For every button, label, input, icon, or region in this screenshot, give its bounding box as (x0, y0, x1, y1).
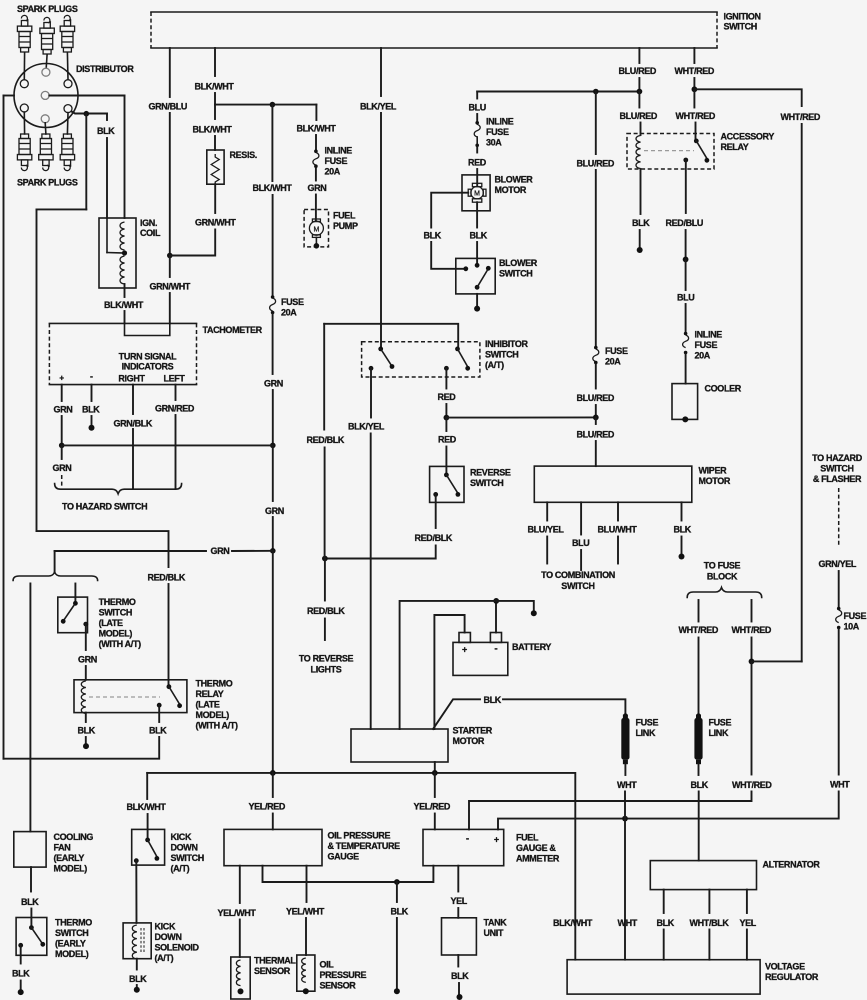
node RED/BLK junction (322, 556, 328, 562)
svg-text:SENSOR: SENSOR (254, 966, 291, 976)
wire thermo relay coil BLK out (85, 713, 87, 722)
wire YEL/WHT to oil sensor (306, 866, 308, 902)
wire relay coil BLK out (640, 169, 642, 214)
wire BLK from tach (91, 385, 93, 401)
wire WHT/RED to junction (693, 78, 695, 89)
svg-text:& TEMPERATURE: & TEMPERATURE (328, 841, 401, 851)
fuel pump box (304, 210, 328, 247)
svg-text:(EARLY: (EARLY (54, 853, 85, 863)
wire BLU/RED to relay (638, 92, 640, 108)
svg-text:FUSE: FUSE (844, 611, 867, 621)
svg-text:-: - (466, 834, 469, 845)
wire rail continues (595, 170, 597, 346)
wire WHT/RED branch right (694, 89, 801, 106)
wire BLK drop (396, 882, 398, 902)
svg-text:BLK/YEL: BLK/YEL (348, 422, 385, 432)
fuse 10A (837, 607, 841, 611)
svg-text:LEFT: LEFT (163, 374, 185, 384)
inhibitor feed horizontal (324, 324, 458, 349)
thermo relay dashed link (89, 696, 160, 698)
svg-text:(LATE: (LATE (196, 700, 220, 710)
svg-text:OIL: OIL (320, 959, 335, 969)
svg-text:GRN: GRN (308, 183, 327, 193)
wire rotor to coil (horizontal) (49, 95, 124, 97)
spark plug P3 (60, 15, 74, 52)
wire BLU below splice (685, 259, 687, 290)
wire rail to junction (595, 405, 597, 417)
wire BLK/YEL to inhibitor switch (380, 113, 382, 349)
wire ground branch horizontal (37, 208, 87, 210)
svg-text:INDICATORS: INDICATORS (122, 362, 174, 372)
wire blower switch ground stub (476, 294, 478, 307)
node solenoid terminal (134, 987, 140, 993)
svg-text:BLK/WHT: BLK/WHT (127, 802, 167, 812)
cooler box (672, 384, 698, 420)
tachometer box (49, 322, 196, 324)
wire BLK terminal (20, 981, 22, 991)
oil pressure sensor coil (302, 958, 306, 982)
svg-text:BLK/YEL: BLK/YEL (360, 102, 397, 112)
wire RED to reverse switch (445, 418, 447, 431)
svg-text:GRN: GRN (211, 546, 230, 556)
svg-text:REVERSE: REVERSE (470, 468, 511, 478)
wire GRN below bus (61, 445, 63, 459)
node BLK terminal dot (83, 743, 89, 749)
resistor RESIS. box (207, 150, 224, 184)
wire GRN rail to bottom bus (272, 551, 274, 773)
svg-text:SWITCH: SWITCH (485, 350, 518, 360)
wire alternator BLK out (663, 890, 665, 913)
node coil tap (122, 250, 127, 255)
distributor body (14, 64, 78, 128)
svg-text:INHIBITOR: INHIBITOR (485, 339, 529, 349)
wire BLK return to left rail (4, 737, 160, 759)
distributor rotor center (41, 91, 49, 99)
wire BLK/YEL from ignition switch (380, 48, 382, 96)
svg-text:YEL: YEL (451, 896, 468, 906)
thermo switch (early model) box (16, 918, 47, 956)
wire WHT/RED ammeter feed (751, 600, 753, 622)
wire to inline fuse (315, 135, 317, 150)
svg-text:-: - (494, 643, 497, 654)
kick down switch contacts (145, 838, 150, 843)
wire YEL tank unit feed (457, 866, 459, 892)
svg-text:FUSE: FUSE (281, 297, 304, 307)
wire BLU stub (580, 550, 582, 570)
svg-text:BLU/WHT: BLU/WHT (598, 524, 638, 534)
wire GRN to thermo relay coil (85, 666, 87, 680)
wire GRN rail to thermo branch (272, 517, 274, 551)
fusible link 2 (BLK) (696, 713, 701, 718)
svg-text:(A/T): (A/T) (155, 953, 174, 963)
wire BLK/WHT into switch (147, 814, 149, 840)
svg-text:BLU: BLU (677, 293, 694, 303)
node bus to GRN rail (270, 770, 276, 776)
wire brace drop to thermo switch (74, 584, 76, 604)
svg-text:KICK: KICK (171, 832, 192, 842)
node gauge ground terminal (394, 988, 400, 994)
svg-text:BLK: BLK (484, 695, 502, 705)
svg-text:RED/BLU: RED/BLU (666, 218, 704, 228)
wire BLK to VR (663, 930, 665, 960)
resistor zigzag (211, 154, 219, 185)
svg-text:INLINE: INLINE (486, 117, 514, 127)
svg-text:RELAY: RELAY (196, 689, 224, 699)
inhibitor right contacts (455, 347, 460, 352)
wire GRN/RED to hazard brace (175, 415, 177, 488)
wire BLU to cooler (685, 354, 687, 384)
wire below fuse (315, 168, 317, 181)
wire BLK/YEL to starter (370, 434, 372, 730)
svg-text:(LATE: (LATE (99, 618, 123, 628)
svg-text:TO REVERSE: TO REVERSE (299, 653, 354, 663)
wire BLK stub terminal (639, 230, 641, 248)
wire reverse out to junction (325, 546, 436, 559)
svg-text:(WITH A/T): (WITH A/T) (196, 721, 239, 731)
thermo switch late contacts (73, 601, 78, 606)
wire GRN/WHT to tachometer (169, 256, 171, 278)
svg-text:BLU/RED: BLU/RED (577, 429, 615, 439)
wire fused rail continues (272, 195, 274, 295)
reverse switch box (430, 466, 464, 502)
wire BLU to inline fuse (476, 114, 478, 122)
wire RED junction to BLU/RED rail (446, 416, 595, 418)
wire RED/BLU relay out (685, 160, 687, 213)
distributor cap terminal lower-right (64, 105, 72, 113)
svg-text:RED/BLK: RED/BLK (307, 606, 345, 616)
wire RED to blower motor (476, 169, 478, 186)
wire BLU/RED into relay coil (640, 123, 642, 136)
svg-text:TANK: TANK (484, 917, 508, 927)
hazard connector brace (55, 484, 182, 494)
svg-text:THERMO: THERMO (196, 679, 233, 689)
svg-text:SWITCH: SWITCH (55, 928, 88, 938)
distributor cap terminal bottom-center (41, 115, 49, 123)
svg-text:WHT/RED: WHT/RED (732, 625, 772, 635)
fusible link 1 (WHT) (623, 713, 628, 718)
wire BLU/RED to junction (638, 78, 640, 92)
svg-text:FUSE: FUSE (605, 346, 628, 356)
distributor cap terminal top-center (42, 68, 50, 76)
wire rail below junction (595, 417, 597, 424)
kick down solenoid box (123, 923, 151, 959)
node BLK drop junction (394, 879, 400, 885)
wire YEL to VR (746, 930, 748, 960)
wire GRN below fuse (272, 314, 274, 374)
wire RED to junction (445, 404, 447, 418)
wire starter BLK jog diagonal (433, 699, 480, 729)
svg-text:(EARLY: (EARLY (55, 938, 86, 948)
svg-text:MOTOR: MOTOR (495, 185, 527, 195)
svg-text:BLK: BLK (82, 405, 100, 415)
wire GRN/WHT continues to tachometer (169, 293, 171, 323)
svg-text:BLK/WHT: BLK/WHT (297, 124, 337, 134)
wire WHT to ammeter line (498, 792, 839, 830)
wire GRN/BLU continues (169, 113, 171, 256)
wire WHT below fuse 10A (838, 629, 840, 775)
svg-text:VOLTAGE: VOLTAGE (765, 961, 805, 971)
wire GRN dashed to hazard brace (61, 475, 63, 488)
wire fused GRN rail from branch (271, 105, 273, 181)
wire BLK/YEL inhibitor out (370, 368, 372, 417)
wire reverse switch out (435, 494, 437, 528)
svg-text:DOWN: DOWN (171, 843, 198, 853)
wire WHT/RED to junction (751, 638, 753, 662)
wire rail below fuse (595, 364, 597, 389)
svg-text:MOTOR: MOTOR (699, 476, 731, 486)
wire BLK to coil primary (106, 114, 108, 121)
svg-text:ALTERNATOR: ALTERNATOR (763, 859, 821, 869)
wire YEL/WHT continues (239, 920, 241, 958)
svg-text:BLU/RED: BLU/RED (619, 66, 657, 76)
node GRN bus right end (270, 443, 276, 449)
fuel pump motor (309, 221, 323, 235)
svg-text:PUMP: PUMP (333, 221, 358, 231)
wire BLK to terminal (396, 918, 398, 989)
svg-text:GRN: GRN (53, 463, 72, 473)
wire RED into reverse switch (445, 447, 447, 475)
wire BLU wiper out (580, 502, 582, 534)
node tank terminal (457, 994, 463, 1000)
svg-text:BLK/WHT: BLK/WHT (553, 918, 593, 928)
svg-text:WHT/RED: WHT/RED (675, 66, 715, 76)
svg-text:BLOWER: BLOWER (499, 258, 538, 268)
svg-text:BLOWER: BLOWER (495, 175, 534, 185)
node BLU/RED drop junction (593, 89, 599, 95)
svg-text:& FLASHER: & FLASHER (813, 474, 862, 484)
wire WHT/RED right rail down (801, 124, 803, 661)
svg-text:BLOCK: BLOCK (707, 572, 738, 582)
wire kick down switch out (135, 861, 137, 923)
wire RED/BLK below junction (324, 559, 326, 601)
svg-text:SWITCH: SWITCH (724, 22, 757, 32)
svg-text:GRN/BLU: GRN/BLU (149, 102, 188, 112)
svg-text:IGN.: IGN. (140, 218, 157, 228)
svg-text:YEL/RED: YEL/RED (414, 802, 451, 812)
reverse switch contacts (444, 473, 449, 478)
svg-text:BLK/WHT: BLK/WHT (193, 125, 233, 135)
thermal sensor box (231, 957, 250, 999)
wire BLK/WHT from ignition switch (214, 48, 216, 76)
wire RED inhibitor out (445, 368, 447, 388)
node BLU/RED-RED junction (593, 415, 599, 421)
wire blower motor left BLK (431, 193, 468, 228)
svg-text:RESIS.: RESIS. (230, 150, 257, 160)
svg-text:+: + (59, 374, 64, 383)
node wiper BLK terminal (679, 554, 685, 560)
coil primary lead inside (106, 218, 108, 253)
svg-text:BLK: BLK (632, 218, 650, 228)
wire battery + to starter (434, 615, 464, 729)
svg-text:20A: 20A (281, 308, 297, 318)
svg-text:GRN/YEL: GRN/YEL (819, 559, 857, 569)
accessory relay dashed link (644, 150, 694, 152)
svg-text:GAUGE: GAUGE (328, 852, 360, 862)
svg-text:COIL: COIL (140, 228, 161, 238)
svg-text:TURN SIGNAL: TURN SIGNAL (119, 352, 177, 362)
node WHT/RED junction (692, 86, 698, 92)
wire plug P3 to distributor (66, 53, 69, 80)
svg-text:LIGHTS: LIGHTS (311, 664, 342, 674)
kick down switch box (132, 829, 165, 865)
wire WHT/BLK to VR (708, 930, 710, 960)
svg-text:BLK/WHT: BLK/WHT (104, 300, 144, 310)
svg-text:BLK: BLK (21, 897, 39, 907)
wire WHT/RED to fuel gauge (469, 792, 752, 830)
node BLK terminal (89, 425, 95, 431)
node RED junction (444, 415, 450, 421)
bottom bus wire (147, 773, 575, 960)
svg-text:BLK: BLK (424, 231, 442, 241)
svg-text:GRN: GRN (265, 506, 284, 516)
svg-text:BLU/YEL: BLU/YEL (528, 524, 565, 534)
spark plug P1 (17, 15, 31, 52)
wire gauge link down (263, 866, 434, 882)
svg-text:-: - (90, 372, 93, 382)
svg-text:BLU/RED: BLU/RED (577, 159, 615, 169)
distributor cap terminal lower-left (20, 104, 28, 112)
svg-text:TO FUSE: TO FUSE (704, 561, 741, 571)
blower switch contacts (475, 263, 480, 268)
wire YEL/WHT continues (305, 918, 307, 955)
svg-text:M: M (313, 226, 319, 233)
tachometer inner connector (125, 323, 170, 335)
wire WHT/RED to fuse link 2 (698, 638, 700, 715)
svg-text:BLK: BLK (12, 969, 30, 979)
wire GRN/BLK from tach (132, 385, 134, 414)
svg-text:MODEL): MODEL) (196, 710, 230, 720)
wire branch to fuel pump feed (215, 104, 316, 106)
battery + terminal (459, 633, 470, 643)
wire BLU/YEL stub (546, 537, 548, 564)
svg-text:GRN/WHT: GRN/WHT (195, 218, 236, 228)
wire battery - to starter (400, 601, 497, 729)
wire coil output BLK/WHT (124, 284, 126, 297)
ignition coil box (99, 218, 136, 288)
node battery - junction (493, 598, 499, 604)
svg-text:YEL/RED: YEL/RED (249, 802, 286, 812)
wire YEL/RED into fuel gauge (434, 814, 436, 830)
wire left rail x36 down (36, 209, 38, 531)
fuse 20A (wiper) (594, 346, 598, 350)
wiper motor box (534, 466, 692, 502)
svg-text:RIGHT: RIGHT (118, 374, 145, 384)
wire battery - up (495, 601, 497, 633)
wire BLU/RED from ignition switch (638, 48, 640, 63)
svg-text:SWITCH: SWITCH (99, 608, 132, 618)
svg-text:THERMO: THERMO (55, 917, 92, 927)
svg-text:DISTRIBUTOR: DISTRIBUTOR (76, 64, 134, 74)
svg-text:ACCESSORY: ACCESSORY (721, 132, 775, 142)
inhibitor left contacts (378, 347, 383, 352)
svg-text:WHT/RED: WHT/RED (679, 625, 719, 635)
wire GRN rail continues below bus (272, 445, 274, 501)
wire distributor to plug P5 (44, 123, 47, 134)
wire WHT/RED into relay (695, 123, 697, 141)
wire BLK to thermo switch early (30, 909, 32, 928)
svg-text:SWITCH: SWITCH (561, 581, 594, 591)
kick down solenoid coil (132, 925, 137, 959)
wire plug P2 to distributor (45, 55, 48, 69)
voltage regulator box (567, 960, 760, 994)
svg-text:COOLER: COOLER (705, 383, 742, 393)
svg-text:FUSE: FUSE (695, 340, 718, 350)
svg-text:LINK: LINK (709, 728, 729, 738)
svg-text:10A: 10A (844, 622, 860, 632)
svg-text:WIPER: WIPER (699, 466, 728, 476)
tank unit box (442, 918, 477, 955)
wire RED/BLK from inhibitor horizontal (323, 324, 325, 430)
wire GRN rail continues (272, 390, 274, 445)
wire BLK to coil primary lower (106, 138, 108, 218)
wire GRN thermo switch out (85, 624, 87, 650)
node WHT/RED rail junction (749, 659, 755, 665)
wire YEL/WHT to thermal sensor (239, 866, 241, 903)
wire distributor BLK branch (72, 112, 108, 114)
node splice RED/BLU-BLU (683, 257, 689, 263)
oil pressure & temperature gauge box (224, 829, 322, 865)
battery box (453, 642, 508, 675)
wire resistor output lower (170, 230, 215, 256)
svg-text:DOWN: DOWN (155, 932, 182, 942)
wire WHT to voltage regulator (624, 792, 626, 960)
wire GRN from tach (61, 385, 63, 401)
node BLU/RED junction (637, 89, 643, 95)
svg-text:BLK/WHT: BLK/WHT (195, 82, 235, 92)
svg-text:TACHOMETER: TACHOMETER (203, 325, 263, 335)
svg-text:(WITH A/T): (WITH A/T) (99, 639, 142, 649)
svg-text:THERMO: THERMO (99, 597, 136, 607)
spark plug P5 (39, 134, 53, 171)
svg-text:BLK/WHT: BLK/WHT (253, 183, 293, 193)
wire BLK below fuse link 2 (698, 764, 700, 775)
wire BLK terminal (85, 737, 87, 746)
ignition switch box (151, 11, 717, 13)
svg-text:SWITCH: SWITCH (171, 853, 204, 863)
node fuel pump ground terminal (315, 237, 317, 244)
node distributor BLK junction (84, 111, 90, 117)
svg-text:PRESSURE: PRESSURE (320, 970, 367, 980)
svg-text:RED: RED (438, 435, 457, 445)
wire battery - stub right (496, 601, 534, 612)
node GRN bus left end (59, 443, 65, 449)
wire BLK to alternator (698, 792, 700, 861)
alternator box (650, 861, 756, 890)
svg-text:WHT/RED: WHT/RED (732, 780, 772, 790)
wire far-left rail down (3, 96, 5, 759)
svg-text:MODEL): MODEL) (54, 864, 88, 874)
distributor cap terminal upper-right (64, 80, 72, 88)
wire WHT/RED fuse-link feed (698, 600, 700, 622)
svg-text:RED: RED (438, 392, 457, 402)
thermal sensor coil (236, 960, 240, 986)
wire BLU blower feed from junction (477, 91, 639, 93)
svg-text:SOLENOID: SOLENOID (155, 943, 200, 953)
svg-text:SPARK PLUGS: SPARK PLUGS (17, 4, 78, 14)
svg-text:WHT/RED: WHT/RED (676, 111, 716, 121)
svg-text:IGNITION: IGNITION (724, 12, 761, 22)
svg-text:20A: 20A (325, 167, 341, 177)
wire thermo early BLK out (20, 945, 22, 963)
svg-text:MOTOR: MOTOR (453, 736, 485, 746)
svg-text:FUSE: FUSE (486, 127, 509, 137)
wire BLK/WHT to resistor (214, 105, 216, 119)
svg-text:GAUGE &: GAUGE & (516, 843, 556, 853)
wire BLK stub (91, 416, 93, 428)
wire GRN to bus (61, 416, 63, 445)
svg-text:SPARK PLUGS: SPARK PLUGS (17, 178, 78, 188)
wire starter bottom to bus (434, 762, 436, 773)
